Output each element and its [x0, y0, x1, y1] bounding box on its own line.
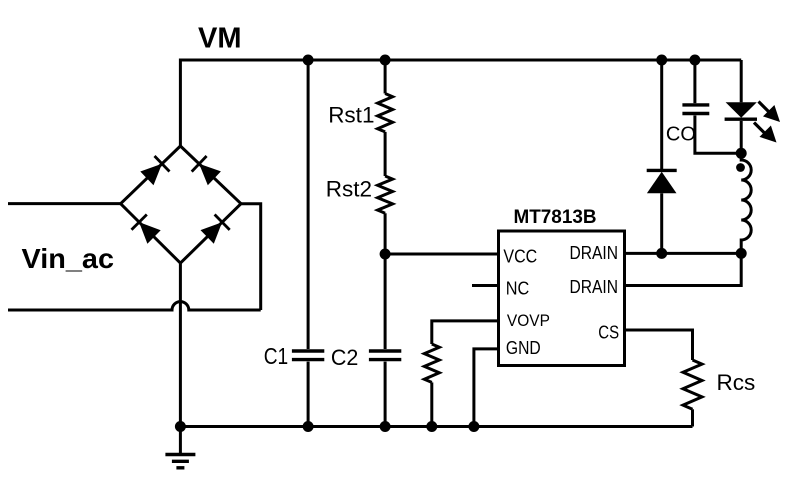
wire: bridge bottom vertex down to ground rail [179, 263, 182, 426]
svg-text:VM: VM [198, 22, 242, 54]
svg-text:MT7813B: MT7813B [514, 206, 597, 228]
junction node DRAIN at coil bottom [736, 248, 747, 259]
svg-text:Rcs: Rcs [717, 370, 756, 395]
svg-text:Rst2: Rst2 [326, 176, 372, 201]
resistor Rcs [683, 360, 702, 409]
wire: bridge right vertex down to lower AC input [241, 204, 261, 310]
bridge diode D2 edge (right vertex to top vertex) [180, 146, 241, 204]
wire: VOVP resistor to ground [430, 382, 433, 426]
wire: Rcs bottom to ground rail [691, 409, 694, 426]
diode D5 (freewheeling) cathode bar [647, 169, 677, 172]
svg-text:C2: C2 [331, 345, 359, 370]
svg-text:C1: C1 [264, 343, 289, 369]
wire: between Rst1 and Rst2 [384, 132, 387, 176]
ground symbol [179, 427, 182, 455]
junction node ground at C1 [303, 421, 314, 432]
svg-text:DRAIN: DRAIN [570, 242, 619, 263]
wire: GND pin to ground rail [474, 349, 499, 427]
inductor L1 winding [741, 153, 751, 253]
junction node at CO bottom / LED [736, 148, 747, 159]
bridge diode D3 edge (bottom vertex to left vertex) [121, 204, 181, 263]
wire: DRAIN lower jog up to DRAIN node [625, 253, 742, 285]
bridge diode D1 triangle and cathode tick [140, 164, 162, 186]
LED D6 top lead from rail [740, 60, 743, 102]
junction node on VM rail at CO branch [689, 55, 700, 66]
svg-text:VCC: VCC [503, 246, 537, 266]
svg-text:VOVP: VOVP [507, 311, 550, 330]
wire: C2 branch lower lead [384, 362, 387, 427]
ground rail wire [180, 425, 692, 428]
bridge diode D2 triangle and cathode tick [199, 164, 221, 185]
junction node on VM rail at C1 branch [303, 55, 314, 66]
LED D6 triangle [726, 102, 757, 117]
svg-text:Rst1: Rst1 [328, 103, 374, 128]
bridge diode D4 triangle and cathode tick [201, 222, 223, 244]
svg-text:GND: GND [506, 338, 541, 358]
wire: AC input upper to bridge left vertex [8, 202, 121, 205]
junction node ground at VOVP resistor [426, 421, 437, 432]
op-amp/IC U1 MT7813B box [499, 231, 625, 366]
LED D6 cathode bar [725, 117, 757, 120]
svg-text:Vin_ac: Vin_ac [22, 243, 115, 274]
resistor Rst1 [378, 94, 393, 132]
svg-text:CS: CS [598, 322, 619, 343]
svg-text:NC: NC [506, 278, 530, 298]
svg-text:DRAIN: DRAIN [570, 276, 619, 297]
wire: VCC wire from Rst2 node to IC [385, 253, 498, 256]
wire: freewheel diode lower lead [660, 193, 663, 253]
inductor L1 phasing dot [736, 163, 745, 172]
capacitor C1 [292, 349, 324, 352]
junction node ground at C2 [380, 421, 391, 432]
junction node DRAIN at diode [656, 248, 667, 259]
capacitor C2 [369, 349, 401, 352]
junction node ground at bridge [175, 421, 186, 432]
wire: VOVP to resistor [432, 321, 499, 344]
junction node at Rst2 bottom / VCC [380, 249, 391, 260]
wire: CO bottom lead to LED node [695, 116, 741, 154]
LED light arrow 1 [759, 102, 771, 114]
LED D6 lower lead to node [740, 121, 743, 153]
wire: freewheel diode branch upper lead [660, 60, 663, 170]
wire: CO branch upper lead [693, 60, 696, 103]
bridge diode D3 triangle and cathode tick [139, 222, 161, 244]
LED light arrow 2 [754, 123, 767, 136]
wire: Rst branch top lead [384, 60, 387, 94]
capacitor CO [682, 103, 709, 106]
wire: C1 branch upper lead [307, 60, 310, 349]
svg-text:CO: CO [666, 123, 696, 145]
wire: AC input lower with hop over bridge bottom lead [8, 302, 261, 310]
wire: C1 branch lower lead [307, 362, 310, 427]
bridge diode D4 edge (bottom vertex to right vertex) [180, 204, 241, 263]
resistor on VOVP branch [424, 344, 439, 382]
bridge diode D1 edge (left vertex to top vertex) [121, 146, 181, 204]
junction node on VM rail at diode branch [656, 55, 667, 66]
wire: VM top rail from bridge top vertex to LED corner [180, 60, 741, 146]
wire: NC stub [472, 284, 499, 287]
junction node on VM rail at Rst branch [380, 55, 391, 66]
resistor Rst2 [378, 176, 393, 213]
wire: CS to Rcs [625, 330, 693, 360]
wire: DRAIN upper to LED/coil node [625, 252, 742, 255]
junction node ground at GND pin [468, 421, 479, 432]
diode D5 triangle [647, 172, 677, 194]
wire: Rst2 bottom down to C2 [384, 213, 387, 349]
